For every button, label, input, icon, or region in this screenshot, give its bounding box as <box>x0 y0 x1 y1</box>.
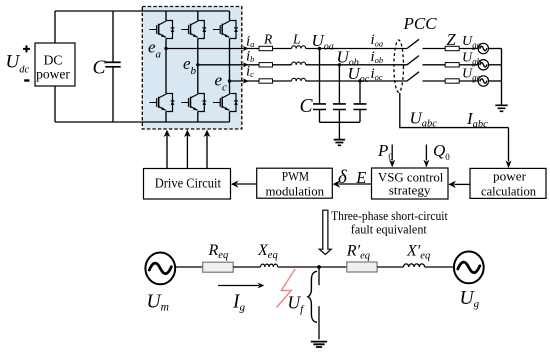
lightning bolt <box>277 269 296 308</box>
capacitor filter phase a <box>313 49 326 123</box>
wire: phase a line <box>166 48 259 50</box>
DC power source box <box>35 43 75 86</box>
wire: Z b to source <box>459 64 478 66</box>
wire: phase c L to PCC <box>306 80 407 82</box>
IGBT S6 <box>181 94 206 112</box>
minus sign <box>24 79 29 81</box>
switch phase a <box>407 39 419 48</box>
svg-text:Uga: Uga <box>462 34 482 50</box>
svg-text:C: C <box>93 58 107 79</box>
svg-text:ioc: ioc <box>371 66 383 82</box>
node Uoc <box>358 79 361 82</box>
inductor X'eq <box>404 264 425 267</box>
switch phase b <box>407 56 419 65</box>
svg-text:strategy: strategy <box>389 183 431 198</box>
svg-text:Q0: Q0 <box>433 141 450 162</box>
svg-text:Ugb: Ugb <box>462 50 482 66</box>
wire: phase a L to PCC <box>306 48 407 50</box>
wire: fault branch upper <box>318 267 320 285</box>
svg-text:Iabc: Iabc <box>466 109 488 130</box>
arrow Q0 into VSG <box>425 145 427 161</box>
big hollow arrow <box>319 210 331 254</box>
svg-text:Ugc: Ugc <box>462 67 481 83</box>
wire: Um to Req <box>176 266 203 268</box>
svg-text:E: E <box>355 168 366 187</box>
IGBT S4 <box>150 94 175 112</box>
svg-text:R: R <box>263 31 273 46</box>
impedance Z phase c <box>445 79 459 83</box>
svg-text:R′eq: R′eq <box>346 242 370 261</box>
svg-text:Uoc: Uoc <box>348 64 370 85</box>
wire: X'eq to Ug <box>425 266 454 268</box>
node Uoa <box>318 47 321 50</box>
svg-text:Uoa: Uoa <box>312 31 334 52</box>
resistor R phase c <box>259 79 273 83</box>
svg-text:C: C <box>300 96 314 117</box>
svg-text:Ig: Ig <box>232 291 246 313</box>
PCC dashed ellipse <box>394 40 404 92</box>
svg-text:Udc: Udc <box>6 51 30 75</box>
svg-text:ib: ib <box>246 49 254 65</box>
wire: DC link top rail <box>55 10 230 12</box>
svg-text:Uabc: Uabc <box>410 108 438 129</box>
wire: grid bus <box>501 49 503 106</box>
wire: source b to bus <box>489 64 502 66</box>
svg-text:power: power <box>36 67 70 82</box>
svg-text:DC: DC <box>44 53 63 68</box>
svg-text:P0: P0 <box>377 141 393 162</box>
svg-text:Ug: Ug <box>460 288 480 310</box>
impedance Z phase b <box>445 63 459 67</box>
svg-text:ic: ic <box>246 63 254 79</box>
switch phase c <box>407 72 419 81</box>
svg-text:ioa: ioa <box>371 32 384 48</box>
IGBT S3 <box>181 21 206 39</box>
inverter dashed box <box>142 7 242 130</box>
AC source Ugb <box>478 60 488 70</box>
IGBT S1 <box>150 21 175 39</box>
resistor R'eq <box>347 262 377 272</box>
svg-text:PWM: PWM <box>282 169 310 184</box>
arrow ia <box>243 46 249 51</box>
Drive Circuit block <box>144 169 231 200</box>
wire: capacitor bank ground stem <box>338 122 340 139</box>
svg-text:Drive Circuit: Drive Circuit <box>155 175 222 190</box>
node ea <box>164 47 167 50</box>
resistor Req <box>203 262 234 272</box>
wire: Xeq to node <box>278 266 347 268</box>
wire: phase b L to PCC <box>306 64 407 66</box>
wire: DC source bottom lead <box>54 86 56 122</box>
inductor L phase b <box>292 62 306 65</box>
wire: capacitor bank bus <box>320 121 361 123</box>
svg-text:L: L <box>292 31 301 46</box>
arrow into PWM <box>333 181 341 188</box>
inductor L phase a <box>292 46 306 49</box>
svg-text:Xeq: Xeq <box>257 242 278 261</box>
capacitor filter phase b <box>333 65 346 123</box>
capacitor filter phase c <box>354 81 367 122</box>
impedance Z phase a <box>445 46 459 50</box>
wire: DC link bottom rail <box>55 121 230 123</box>
wire: phase b R to L <box>273 64 292 66</box>
wire: phase b line <box>198 64 259 66</box>
svg-text:fault equivalent: fault equivalent <box>351 222 427 237</box>
wire: phase b to Z <box>423 64 446 66</box>
wire: VSG to PWM <box>339 183 372 185</box>
wire: phase c line <box>230 80 260 82</box>
wire: Z a to source <box>459 48 478 50</box>
svg-text:ia: ia <box>246 34 254 50</box>
ground grid <box>495 105 507 111</box>
drive arrow 1 <box>166 135 168 168</box>
svg-text:δ: δ <box>338 167 348 188</box>
arrow ic <box>243 78 249 83</box>
node ec <box>228 79 231 82</box>
arrow into VSG <box>448 181 456 188</box>
AC source Ug <box>454 252 484 284</box>
wire: PCC measurement drop <box>400 93 509 128</box>
IGBT S5 <box>213 21 238 39</box>
wire: leg b <box>197 11 199 122</box>
wire: Req to Xeq <box>233 266 260 268</box>
PWM modulation block <box>257 168 333 198</box>
wire: measurement to power calculation <box>508 128 510 162</box>
svg-text:Uf: Uf <box>288 293 306 316</box>
inductor L phase c <box>292 78 306 81</box>
resistor R phase b <box>259 63 273 67</box>
wire: leg a <box>165 11 167 122</box>
node fault <box>317 265 321 269</box>
inductor Xeq <box>261 264 278 267</box>
arrow into Drive Circuit <box>231 181 239 188</box>
wire: fault branch lower <box>318 306 320 339</box>
wire: power calc to VSG <box>455 183 471 185</box>
VSG control strategy block <box>372 168 449 199</box>
wire: phase a R to L <box>273 48 292 50</box>
wire: source a to bus <box>489 48 502 50</box>
node eb <box>196 63 199 66</box>
plus sign <box>23 45 30 52</box>
svg-text:X′eq: X′eq <box>406 242 430 261</box>
svg-text:calculation: calculation <box>481 184 536 199</box>
arrow ib <box>243 62 249 67</box>
svg-text:power: power <box>493 168 527 183</box>
power calculation block <box>470 168 546 198</box>
AC source Uga <box>478 43 488 53</box>
svg-text:PCC: PCC <box>403 14 438 33</box>
drive arrow 2 <box>186 135 188 168</box>
ground capacitor bank <box>334 140 345 146</box>
svg-text:Req: Req <box>208 242 229 261</box>
svg-text:modulation: modulation <box>266 183 325 198</box>
IGBT S2 <box>213 94 238 112</box>
capacitor C dc-link <box>105 11 120 122</box>
svg-text:Um: Um <box>147 292 169 314</box>
wire: phase c to Z <box>423 80 446 82</box>
wire: phase c R to L <box>273 80 292 82</box>
svg-text:Z: Z <box>447 30 457 49</box>
arrow Ig <box>218 285 259 287</box>
resistor R phase a <box>259 46 273 50</box>
arrow into power calculation <box>506 161 512 169</box>
brace Uf <box>308 271 317 322</box>
AC source Ugc <box>478 76 488 86</box>
wire: phase a to Z <box>423 48 446 50</box>
wire: Z c to source <box>459 80 478 82</box>
wire: source c to bus <box>489 80 502 82</box>
svg-text:iob: iob <box>371 49 384 65</box>
node Uob <box>338 63 341 66</box>
drive arrow 3 <box>206 135 208 168</box>
AC source Um <box>145 253 175 285</box>
wire: R'eq to X'eq <box>377 266 403 268</box>
wire: DC source top lead <box>54 11 56 43</box>
wire: PWM to Drive <box>237 183 257 185</box>
wire: leg c <box>229 11 231 122</box>
ground fault <box>311 342 327 347</box>
arrow P0 into VSG <box>391 145 393 161</box>
